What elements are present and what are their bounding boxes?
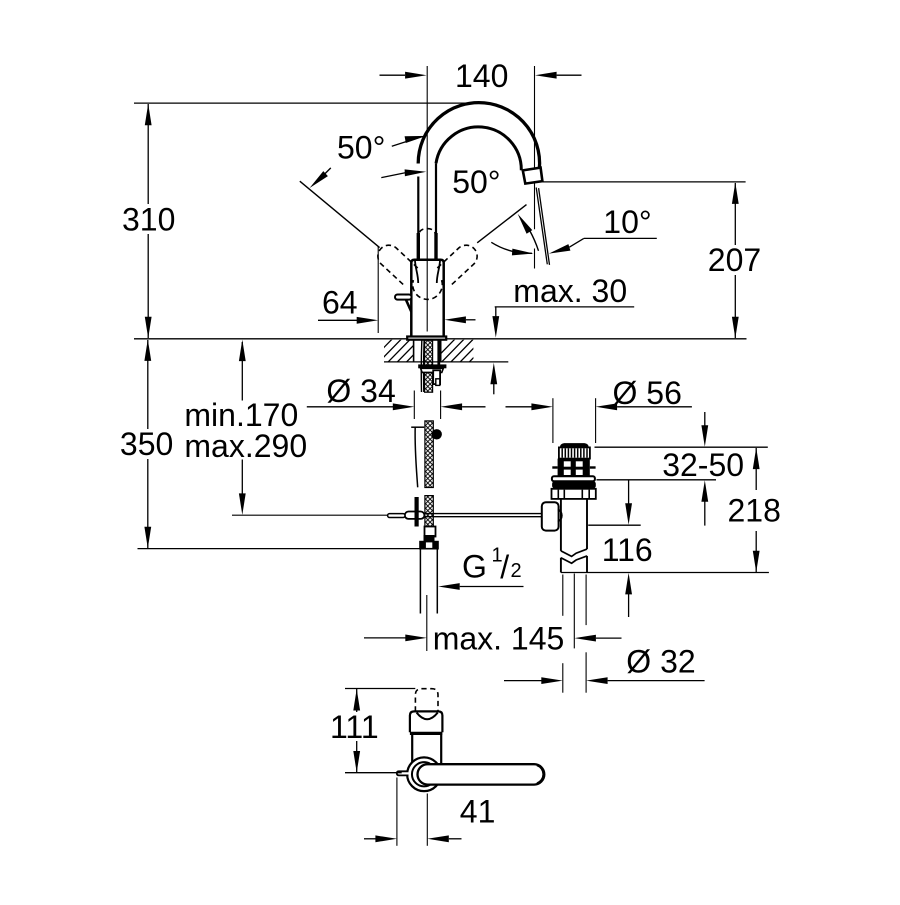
dimension 111 (top view height) [345, 688, 415, 690]
svg-text:111: 111 [330, 709, 379, 745]
extension line: tailpipe dia32 left [562, 575, 564, 616]
top view: body outer circle [407, 757, 441, 791]
pull rod thin section [415, 427, 418, 488]
dimension 350 (below counter) [147, 340, 149, 548]
top view: spout smile arc [417, 713, 438, 720]
counter top hatching right of hole [432, 339, 556, 362]
svg-text:350: 350 [120, 426, 173, 462]
spout pipe left edge [417, 177, 419, 236]
pull rod tick [411, 426, 424, 428]
extension line: 64-dim handle reach [377, 246, 379, 333]
extension line: hole dia 34 right [440, 391, 442, 420]
extension line: tailpipe dia32 right [585, 575, 587, 626]
reference line: pop-up rod height (min/max bottom) [232, 514, 388, 516]
extension line: spout outlet axis [534, 66, 536, 229]
supply pipe [419, 550, 421, 614]
reference line: 350 bottom / supply connection [138, 548, 421, 550]
svg-text:max.290: max.290 [184, 428, 307, 464]
label G1/2 (supply thread) with leader arrow [438, 583, 460, 590]
dimension dia56 (drain flange) [506, 406, 532, 408]
dimension 32-50 (drain clamping range) [704, 412, 706, 426]
pull rod behind shank (upper) [420, 341, 423, 393]
top view: spout ring [410, 711, 443, 732]
dimension 116 (tailpipe length) [628, 480, 630, 504]
spout pipe right edge [435, 163, 437, 235]
svg-text:310: 310 [122, 202, 175, 238]
svg-text:218: 218 [728, 493, 781, 529]
svg-text:max. 145: max. 145 [433, 621, 565, 657]
spout outlet / mousseur [523, 168, 543, 184]
top view: divider band [410, 732, 443, 735]
clamp tab [433, 370, 440, 384]
housing neck curve left [415, 261, 418, 283]
top view: body inner circle [412, 762, 436, 786]
svg-text:64: 64 [322, 285, 358, 321]
drain checkered body [558, 459, 590, 478]
clevis on pop-up rod [405, 512, 425, 519]
reference line: counter underside [384, 361, 508, 363]
dimension 50deg left (handle swing) leaders [392, 142, 407, 147]
svg-text:207: 207 [708, 242, 761, 278]
top view: handle end inner arc [537, 765, 543, 783]
reference line: outlet height (207 top) [543, 181, 746, 183]
pop-up rod ball nut at tailpipe [542, 502, 559, 530]
spout outer arc [418, 103, 539, 175]
right swing arc with arrow [530, 230, 539, 250]
pull rod lower thick section [415, 497, 419, 527]
extension line: drain dia 56 right [595, 398, 597, 443]
horizontal pop-up rod to drain [424, 513, 541, 515]
10deg right arrow and leader [549, 244, 571, 254]
flexible hose upper part [425, 421, 433, 488]
lever knob front view [395, 295, 412, 300]
dimension 218 (drain total height) [755, 448, 757, 490]
svg-text:140: 140 [455, 58, 508, 94]
second stud dark bar [437, 340, 440, 369]
cartridge housing body [411, 260, 443, 337]
top view: body sides [411, 735, 413, 763]
drain locknut [552, 489, 596, 499]
reference line: top of spout (310 top) [134, 102, 479, 104]
extension line: drain dia 56 left [552, 398, 554, 443]
reference line: 116 mid stop line [588, 524, 641, 526]
drain plug dome cap [560, 443, 589, 447]
spout inner arc [436, 127, 521, 170]
dimension 310 (height above counter) [147, 104, 149, 338]
axis line through housing [426, 260, 428, 332]
right swing axis line [477, 205, 526, 243]
mounting nut [421, 368, 444, 372]
extension line: hole dia 34 left [413, 391, 415, 420]
drain ribbed collar [559, 447, 590, 458]
svg-text:/: / [500, 549, 509, 585]
counter hole edge right [440, 340, 442, 362]
drain black band [552, 481, 596, 488]
top view: dashed aerator cap [415, 689, 438, 712]
extension line: supply pipe axis (max145 left) [426, 595, 428, 651]
svg-text:Ø 34: Ø 34 [326, 373, 395, 409]
dashed handle swung right [437, 245, 477, 285]
svg-text:G: G [462, 549, 487, 585]
drain side spokes [552, 466, 557, 468]
reference line: drain flange bottom (32-50 bottom / 116 top) [597, 479, 717, 481]
counter hole edge left [413, 340, 415, 362]
top view: lever handle [418, 764, 545, 784]
threaded shank through counter [425, 340, 433, 392]
dimension 64 (handle projection) [318, 319, 357, 321]
reference line: counter top surface [134, 338, 747, 340]
svg-text:2: 2 [511, 560, 522, 582]
drain tailpipe walls [560, 499, 562, 551]
svg-text:50°: 50° [452, 164, 500, 200]
dimension max.145 (tap to drain distance) [364, 637, 406, 639]
supply fitting cap [424, 535, 435, 541]
dimension dia32 (tailpipe) [504, 680, 542, 682]
svg-text:32-50: 32-50 [662, 447, 744, 483]
svg-text:10°: 10° [603, 204, 651, 240]
dashed lever ball circle [413, 280, 443, 299]
dimension 207 (outlet height) [734, 183, 736, 338]
mounting washer [418, 364, 446, 368]
pull rod ball joint [432, 429, 442, 439]
svg-text:50°: 50° [337, 129, 385, 165]
flexible hose lower part [425, 496, 433, 528]
dashed handle swung left [378, 245, 418, 285]
dimension min.170 max.290 (hose length) [241, 342, 243, 401]
dimension 10deg (stream angle) arc with arrow [491, 242, 532, 253]
counter top hatching left of hole [360, 339, 484, 362]
arrow at counter underside [490, 363, 497, 385]
base flange [407, 337, 446, 340]
reference line: drain top (32-50 / 218 top) [595, 446, 768, 448]
extension line: drain axis (max145 right) [573, 574, 575, 649]
tailpipe break symbol [561, 549, 587, 556]
pop-up rod left threaded end [388, 514, 405, 518]
extension line: faucet vertical axis [426, 66, 428, 332]
housing neck curve right [437, 261, 440, 283]
dashed lever forward position arch [418, 229, 436, 241]
water stream lines [536, 188, 547, 265]
top view: pull rod stub [397, 771, 409, 775]
svg-text:116: 116 [602, 532, 653, 568]
svg-text:Ø 56: Ø 56 [613, 375, 682, 411]
dimension max.30 (counter thickness) [495, 306, 635, 308]
svg-text:41: 41 [460, 794, 496, 830]
dimension 140 (spout projection) [380, 74, 406, 76]
dimension dia34 (mounting hole) [307, 406, 393, 408]
hose end connector [425, 527, 436, 537]
drain flange [552, 476, 595, 481]
svg-text:max. 30: max. 30 [513, 273, 627, 309]
svg-text:Ø 32: Ø 32 [626, 644, 695, 680]
reference line: tailpipe end (218 bottom) [561, 572, 769, 574]
dimension 41 (top view) [396, 778, 398, 846]
left swing axis line with arc arrow [300, 181, 380, 247]
supply fitting nut [419, 541, 439, 550]
